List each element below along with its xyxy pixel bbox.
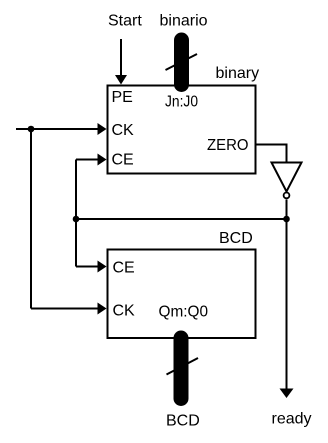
svg-text:Jn:J0: Jn:J0	[165, 94, 198, 111]
svg-text:BCD: BCD	[166, 413, 200, 430]
svg-text:BCD: BCD	[219, 230, 253, 247]
svg-text:CK: CK	[113, 303, 136, 320]
svg-text:CE: CE	[112, 152, 134, 169]
svg-text:CE: CE	[113, 260, 135, 277]
svg-text:binario: binario	[160, 13, 208, 30]
svg-text:Start: Start	[108, 13, 142, 30]
svg-text:CK: CK	[112, 122, 135, 139]
svg-text:PE: PE	[112, 89, 133, 106]
svg-text:ready: ready	[272, 411, 312, 428]
svg-text:Qm:Q0: Qm:Q0	[159, 304, 209, 321]
svg-text:binary: binary	[216, 65, 260, 82]
svg-text:ZERO: ZERO	[207, 137, 249, 154]
